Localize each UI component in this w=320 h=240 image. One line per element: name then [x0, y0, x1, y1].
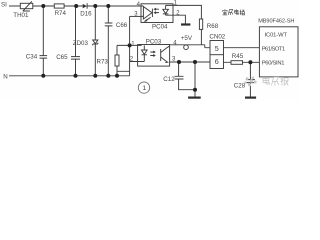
svg-text:R45: R45 — [232, 53, 244, 60]
svg-text:PC03: PC03 — [146, 39, 162, 46]
svg-text:P61/SOT1: P61/SOT1 — [262, 47, 285, 53]
svg-text:SI: SI — [1, 1, 7, 8]
svg-text:R68: R68 — [207, 23, 219, 30]
svg-text:1: 1 — [142, 85, 146, 92]
svg-text:D16: D16 — [80, 11, 92, 18]
svg-text:P60/SIN1: P60/SIN1 — [262, 60, 285, 66]
svg-text:TH01: TH01 — [13, 12, 29, 19]
svg-text:R74: R74 — [55, 10, 67, 17]
svg-text:C12: C12 — [163, 76, 175, 83]
svg-text:6: 6 — [215, 57, 219, 66]
svg-text:C66: C66 — [116, 22, 128, 29]
svg-text:R73: R73 — [97, 58, 109, 65]
svg-text:C34: C34 — [26, 54, 38, 61]
svg-text:ZD03: ZD03 — [73, 40, 89, 47]
svg-text:N: N — [3, 73, 7, 80]
svg-text:C65: C65 — [56, 54, 68, 61]
svg-text:PC04: PC04 — [152, 23, 168, 30]
svg-text:MB90F462-SH: MB90F462-SH — [258, 19, 294, 25]
svg-text:5: 5 — [215, 44, 219, 53]
svg-text:+5V: +5V — [181, 35, 193, 42]
svg-text:C28: C28 — [234, 82, 246, 89]
svg-text:IC01-WT: IC01-WT — [265, 32, 288, 38]
svg-text:CN02: CN02 — [209, 34, 225, 41]
